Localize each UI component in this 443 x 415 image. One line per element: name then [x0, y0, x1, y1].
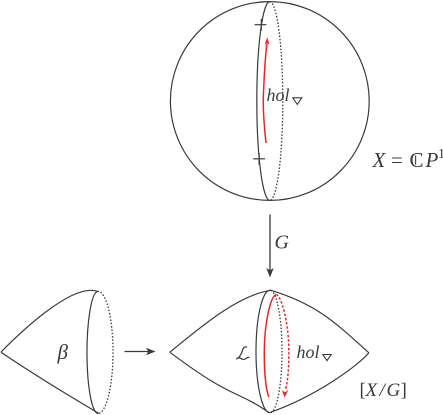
football orbifold [X/G] lower edge	[170, 352, 369, 413]
great circle front arc (solid)	[257, 2, 270, 201]
teardrop orbifold (left cone) upper edge	[1, 290, 97, 352]
nabla subscript (orbifold)	[323, 355, 331, 361]
svg-text:[X/G]: [X/G]	[360, 380, 407, 401]
cone point marker + (north)	[255, 19, 267, 31]
svg-text:G: G	[275, 232, 290, 254]
sphere X = CP^1	[170, 2, 369, 201]
blackboard bold inner stroke of C	[415, 156, 417, 165]
football orbifold [X/G] upper edge	[170, 290, 369, 353]
svg-text:hol: hol	[297, 342, 320, 362]
holonomy path (red) on sphere	[263, 44, 267, 143]
holonomy arrowhead (red, up)	[265, 37, 270, 45]
quotient map arrow (vertical)	[269, 215, 271, 271]
red holonomy loop back (dashed)	[276, 294, 289, 389]
svg-text:hol: hol	[267, 85, 290, 105]
boundary circle back arc (dotted)	[97, 291, 113, 413]
svg-text:1: 1	[438, 147, 443, 162]
boundary circle front arc (solid)	[87, 291, 99, 413]
nabla subscript (sphere)	[293, 98, 302, 105]
svg-text:P: P	[425, 148, 439, 172]
teardrop orbifold (left cone) lower edge	[1, 352, 99, 413]
gluing arrowhead (right)	[146, 348, 156, 355]
red holonomy loop front (solid)	[264, 294, 276, 397]
great circle back arc (dotted)	[270, 2, 283, 201]
label L (script, line bundle)	[237, 347, 249, 360]
svg-text:=: =	[391, 148, 403, 172]
svg-text:X: X	[372, 148, 387, 172]
svg-text:β: β	[57, 340, 69, 364]
quotient arrowhead (down)	[266, 268, 273, 278]
cone point marker + (south)	[253, 153, 265, 165]
central circle front arc (solid)	[256, 290, 271, 413]
gluing arrow (horizontal)	[125, 351, 149, 353]
svg-text:C: C	[410, 148, 424, 172]
red loop arrowhead (down)	[282, 390, 289, 398]
central circle back arc (dotted)	[269, 290, 282, 413]
